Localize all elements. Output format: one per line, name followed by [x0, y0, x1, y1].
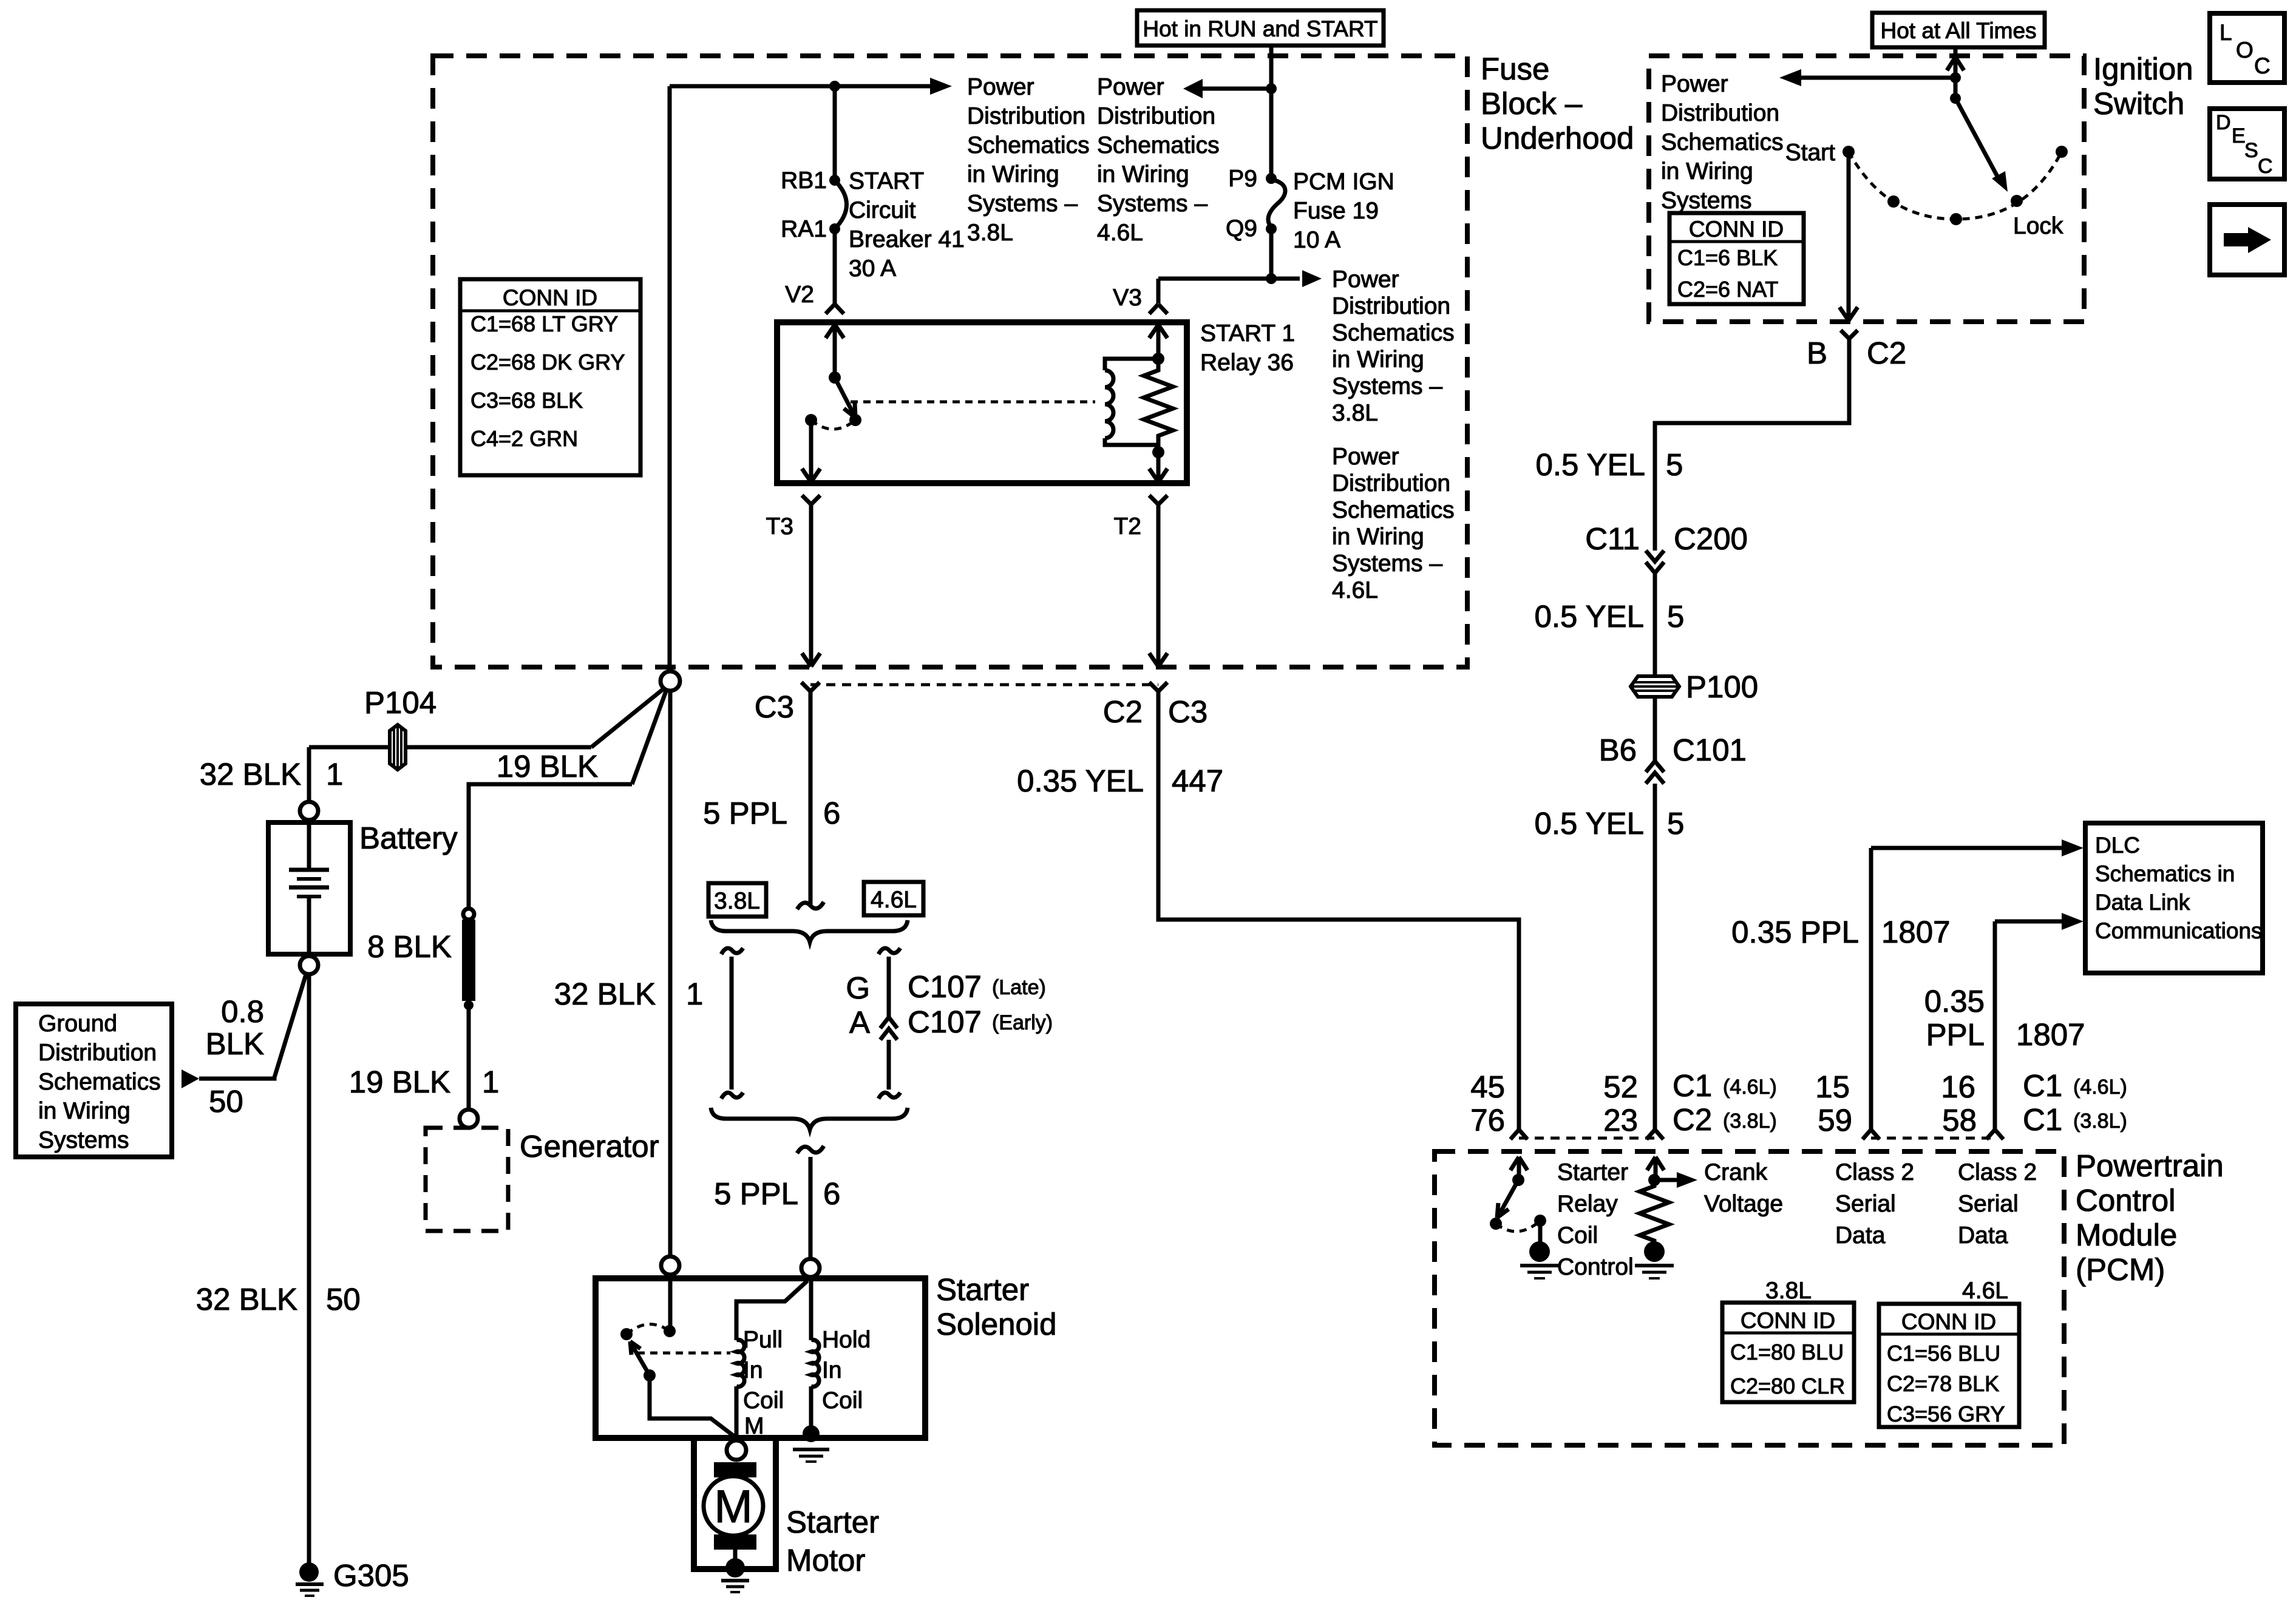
svg-text:in Wiring: in Wiring: [1097, 161, 1189, 188]
svg-text:C1: C1: [2023, 1102, 2062, 1137]
svg-text:5 PPL: 5 PPL: [703, 796, 787, 830]
svg-text:Distribution: Distribution: [1332, 293, 1450, 319]
svg-text:0.5 YEL: 0.5 YEL: [1535, 447, 1645, 482]
svg-text:3.8L: 3.8L: [714, 888, 760, 914]
svg-text:C1: C1: [1673, 1068, 1712, 1103]
svg-text:32 BLK: 32 BLK: [554, 977, 656, 1011]
svg-text:0.8: 0.8: [221, 994, 264, 1029]
svg-text:Distribution: Distribution: [38, 1040, 157, 1066]
svg-text:C2: C2: [1103, 694, 1143, 729]
svg-text:T2: T2: [1113, 514, 1141, 540]
svg-text:(Early): (Early): [992, 1011, 1053, 1034]
svg-text:Powertrain: Powertrain: [2076, 1148, 2224, 1183]
svg-text:PPL: PPL: [1926, 1017, 1985, 1052]
svg-text:B: B: [1807, 336, 1827, 370]
svg-text:Coil: Coil: [1557, 1222, 1598, 1249]
svg-text:Pull: Pull: [743, 1327, 783, 1353]
svg-text:59: 59: [1818, 1103, 1852, 1137]
svg-text:Systems: Systems: [38, 1127, 129, 1153]
svg-text:Relay 36: Relay 36: [1200, 350, 1294, 376]
svg-text:C1=56 BLU: C1=56 BLU: [1887, 1341, 2000, 1366]
svg-text:Schematics: Schematics: [1332, 320, 1455, 346]
svg-text:C3=56 GRY: C3=56 GRY: [1887, 1402, 2005, 1426]
svg-text:C11: C11: [1585, 521, 1640, 556]
svg-text:C1=68 LT GRY: C1=68 LT GRY: [470, 311, 618, 336]
svg-text:Fuse 19: Fuse 19: [1293, 198, 1379, 224]
svg-text:Starter: Starter: [786, 1505, 879, 1539]
svg-text:G305: G305: [333, 1558, 409, 1593]
svg-text:Switch: Switch: [2093, 86, 2184, 121]
svg-text:Serial: Serial: [1835, 1191, 1896, 1217]
svg-text:Data Link: Data Link: [2095, 890, 2190, 915]
svg-text:1: 1: [686, 977, 703, 1011]
svg-text:Schematics: Schematics: [1661, 129, 1784, 155]
svg-text:CONN ID: CONN ID: [1689, 217, 1784, 242]
svg-text:Systems –: Systems –: [967, 191, 1078, 217]
svg-text:in Wiring: in Wiring: [38, 1098, 131, 1124]
svg-text:C2=80 CLR: C2=80 CLR: [1730, 1374, 1845, 1398]
svg-text:Q9: Q9: [1226, 215, 1257, 242]
svg-text:4.6L: 4.6L: [1097, 220, 1143, 246]
svg-text:M: M: [714, 1481, 752, 1533]
svg-text:Data: Data: [1835, 1222, 1886, 1249]
svg-text:Module: Module: [2076, 1218, 2177, 1252]
svg-text:Power: Power: [967, 74, 1034, 100]
svg-text:C: C: [2254, 53, 2271, 78]
svg-text:0.35: 0.35: [1924, 984, 1985, 1019]
svg-text:50: 50: [326, 1282, 361, 1317]
svg-text:Distribution: Distribution: [1661, 100, 1779, 126]
svg-text:D: D: [2216, 111, 2231, 134]
svg-text:Schematics: Schematics: [967, 132, 1090, 158]
svg-text:Underhood: Underhood: [1481, 121, 1634, 155]
svg-text:CONN ID: CONN ID: [503, 285, 597, 310]
svg-text:C2=6 NAT: C2=6 NAT: [1677, 277, 1778, 302]
svg-text:Class 2: Class 2: [1958, 1159, 2037, 1185]
svg-text:In: In: [743, 1357, 763, 1383]
svg-text:Control: Control: [1557, 1254, 1634, 1280]
svg-text:30 A: 30 A: [849, 256, 896, 282]
svg-text:1807: 1807: [1881, 915, 1950, 949]
svg-text:O: O: [2236, 38, 2254, 63]
svg-text:Hot at All Times: Hot at All Times: [1880, 18, 2036, 43]
svg-text:Power: Power: [1097, 74, 1164, 100]
svg-text:Ignition: Ignition: [2093, 52, 2193, 86]
svg-text:Voltage: Voltage: [1704, 1191, 1783, 1217]
svg-text:50: 50: [209, 1084, 243, 1119]
svg-text:4.6L: 4.6L: [1332, 577, 1378, 603]
svg-text:C107: C107: [908, 969, 982, 1004]
svg-text:15: 15: [1815, 1070, 1850, 1104]
svg-text:1807: 1807: [2016, 1017, 2085, 1052]
svg-text:in Wiring: in Wiring: [1332, 524, 1424, 550]
svg-text:3.8L: 3.8L: [1332, 400, 1378, 426]
svg-text:C200: C200: [1674, 521, 1748, 556]
svg-text:V3: V3: [1113, 285, 1142, 311]
svg-text:Battery: Battery: [359, 821, 458, 855]
svg-text:Fuse: Fuse: [1481, 52, 1549, 86]
svg-text:5: 5: [1667, 806, 1684, 841]
svg-text:PCM IGN: PCM IGN: [1293, 169, 1394, 195]
svg-text:Distribution: Distribution: [967, 103, 1085, 129]
svg-text:C1=6 BLK: C1=6 BLK: [1677, 245, 1778, 270]
svg-text:DLC: DLC: [2095, 833, 2140, 858]
svg-text:B6: B6: [1599, 733, 1637, 767]
svg-text:Motor: Motor: [786, 1543, 865, 1578]
svg-text:Start: Start: [1785, 140, 1836, 166]
svg-text:P104: P104: [364, 685, 436, 720]
svg-text:Coil: Coil: [743, 1388, 784, 1414]
svg-text:(Late): (Late): [992, 976, 1046, 999]
svg-text:in Wiring: in Wiring: [1661, 158, 1753, 185]
svg-text:Solenoid: Solenoid: [936, 1307, 1057, 1341]
svg-text:C3: C3: [1168, 694, 1207, 729]
svg-text:Coil: Coil: [822, 1388, 863, 1414]
svg-text:19 BLK: 19 BLK: [349, 1065, 450, 1099]
svg-text:C2: C2: [1673, 1102, 1712, 1137]
svg-text:L: L: [2220, 20, 2232, 45]
svg-text:(4.6L): (4.6L): [2073, 1076, 2127, 1099]
svg-text:Schematics: Schematics: [38, 1069, 161, 1095]
svg-text:(3.8L): (3.8L): [2073, 1110, 2127, 1133]
svg-text:Generator: Generator: [520, 1129, 659, 1164]
svg-text:0.5 YEL: 0.5 YEL: [1534, 599, 1644, 634]
svg-text:C101: C101: [1673, 733, 1747, 767]
svg-text:Power: Power: [1661, 71, 1728, 97]
svg-text:C3=68 BLK: C3=68 BLK: [470, 388, 583, 413]
svg-text:A: A: [849, 1005, 870, 1040]
svg-text:C1=80 BLU: C1=80 BLU: [1730, 1340, 1844, 1364]
svg-text:0.35 YEL: 0.35 YEL: [1017, 764, 1144, 798]
svg-text:58: 58: [1942, 1103, 1977, 1137]
svg-text:P9: P9: [1228, 166, 1257, 192]
svg-text:52: 52: [1603, 1070, 1638, 1104]
svg-text:6: 6: [823, 796, 840, 830]
svg-text:Serial: Serial: [1958, 1191, 2019, 1217]
svg-text:G: G: [846, 971, 870, 1005]
svg-text:Hot in RUN and START: Hot in RUN and START: [1143, 16, 1377, 41]
svg-text:Hold: Hold: [822, 1327, 871, 1353]
svg-text:Lock: Lock: [2013, 213, 2063, 239]
svg-text:76: 76: [1470, 1103, 1505, 1137]
svg-text:23: 23: [1603, 1103, 1638, 1137]
svg-text:Systems –: Systems –: [1097, 191, 1207, 217]
svg-text:Power: Power: [1332, 266, 1399, 293]
svg-text:C107: C107: [908, 1005, 982, 1039]
svg-text:0.35 PPL: 0.35 PPL: [1731, 915, 1859, 949]
svg-text:Starter: Starter: [936, 1272, 1029, 1307]
svg-text:Distribution: Distribution: [1332, 470, 1450, 497]
svg-text:Circuit: Circuit: [849, 197, 916, 223]
svg-text:Block –: Block –: [1481, 86, 1583, 121]
svg-text:32 BLK: 32 BLK: [196, 1282, 297, 1317]
svg-text:(PCM): (PCM): [2076, 1252, 2165, 1287]
svg-text:Relay: Relay: [1557, 1191, 1618, 1217]
svg-text:Ground: Ground: [38, 1011, 117, 1037]
svg-text:RA1: RA1: [781, 216, 827, 242]
svg-text:in Wiring: in Wiring: [967, 161, 1059, 188]
svg-text:Schematics: Schematics: [1097, 132, 1220, 158]
svg-text:RB1: RB1: [781, 168, 827, 194]
svg-text:4.6L: 4.6L: [1962, 1278, 2008, 1304]
svg-text:Power: Power: [1332, 444, 1399, 470]
svg-text:5 PPL: 5 PPL: [714, 1176, 798, 1211]
svg-text:4.6L: 4.6L: [871, 887, 917, 913]
svg-text:S: S: [2244, 139, 2258, 162]
svg-text:In: In: [822, 1357, 842, 1383]
svg-text:5: 5: [1666, 447, 1683, 482]
svg-text:C3: C3: [755, 690, 794, 724]
svg-text:5: 5: [1667, 599, 1684, 634]
svg-text:C4=2 GRN: C4=2 GRN: [470, 426, 578, 451]
svg-text:1: 1: [326, 757, 343, 792]
svg-text:C2: C2: [1867, 336, 1906, 370]
svg-text:CONN ID: CONN ID: [1741, 1308, 1835, 1333]
svg-text:Starter: Starter: [1557, 1159, 1628, 1185]
svg-text:Systems: Systems: [1661, 188, 1752, 214]
svg-text:6: 6: [823, 1176, 840, 1211]
svg-text:1: 1: [482, 1065, 499, 1099]
svg-text:Schematics: Schematics: [1332, 497, 1455, 523]
svg-text:Control: Control: [2076, 1183, 2175, 1218]
svg-text:3.8L: 3.8L: [967, 220, 1013, 246]
svg-text:16: 16: [1941, 1070, 1975, 1104]
svg-text:C: C: [2258, 155, 2273, 178]
svg-text:C2=78 BLK: C2=78 BLK: [1887, 1371, 1999, 1396]
svg-text:Schematics in: Schematics in: [2095, 861, 2235, 886]
svg-text:V2: V2: [785, 282, 814, 308]
svg-text:Communications: Communications: [2095, 918, 2263, 943]
svg-text:3.8L: 3.8L: [1765, 1278, 1812, 1304]
svg-text:0.5 YEL: 0.5 YEL: [1534, 806, 1644, 841]
svg-text:E: E: [2232, 124, 2246, 147]
svg-text:T3: T3: [766, 514, 793, 540]
svg-text:Breaker 41: Breaker 41: [849, 226, 965, 253]
svg-text:Crank: Crank: [1704, 1159, 1768, 1185]
svg-text:10 A: 10 A: [1293, 227, 1340, 253]
svg-text:in Wiring: in Wiring: [1332, 347, 1424, 373]
svg-text:32 BLK: 32 BLK: [200, 757, 301, 792]
svg-text:Distribution: Distribution: [1097, 103, 1215, 129]
svg-text:START: START: [849, 168, 924, 194]
svg-text:Data: Data: [1958, 1222, 2008, 1249]
svg-text:Systems –: Systems –: [1332, 551, 1442, 577]
svg-text:8 BLK: 8 BLK: [367, 929, 452, 964]
svg-text:Class 2: Class 2: [1835, 1159, 1914, 1185]
svg-text:START 1: START 1: [1200, 320, 1295, 347]
svg-text:C2=68 DK GRY: C2=68 DK GRY: [470, 350, 625, 375]
svg-text:45: 45: [1470, 1070, 1505, 1104]
svg-text:19 BLK: 19 BLK: [497, 749, 598, 784]
svg-text:447: 447: [1172, 764, 1223, 798]
svg-text:Systems –: Systems –: [1332, 373, 1442, 399]
svg-text:P100: P100: [1686, 670, 1758, 704]
svg-text:C1: C1: [2023, 1068, 2062, 1103]
svg-text:(4.6L): (4.6L): [1723, 1076, 1777, 1099]
svg-text:BLK: BLK: [206, 1026, 264, 1061]
svg-text:(3.8L): (3.8L): [1723, 1110, 1777, 1133]
svg-text:CONN ID: CONN ID: [1901, 1309, 1996, 1334]
